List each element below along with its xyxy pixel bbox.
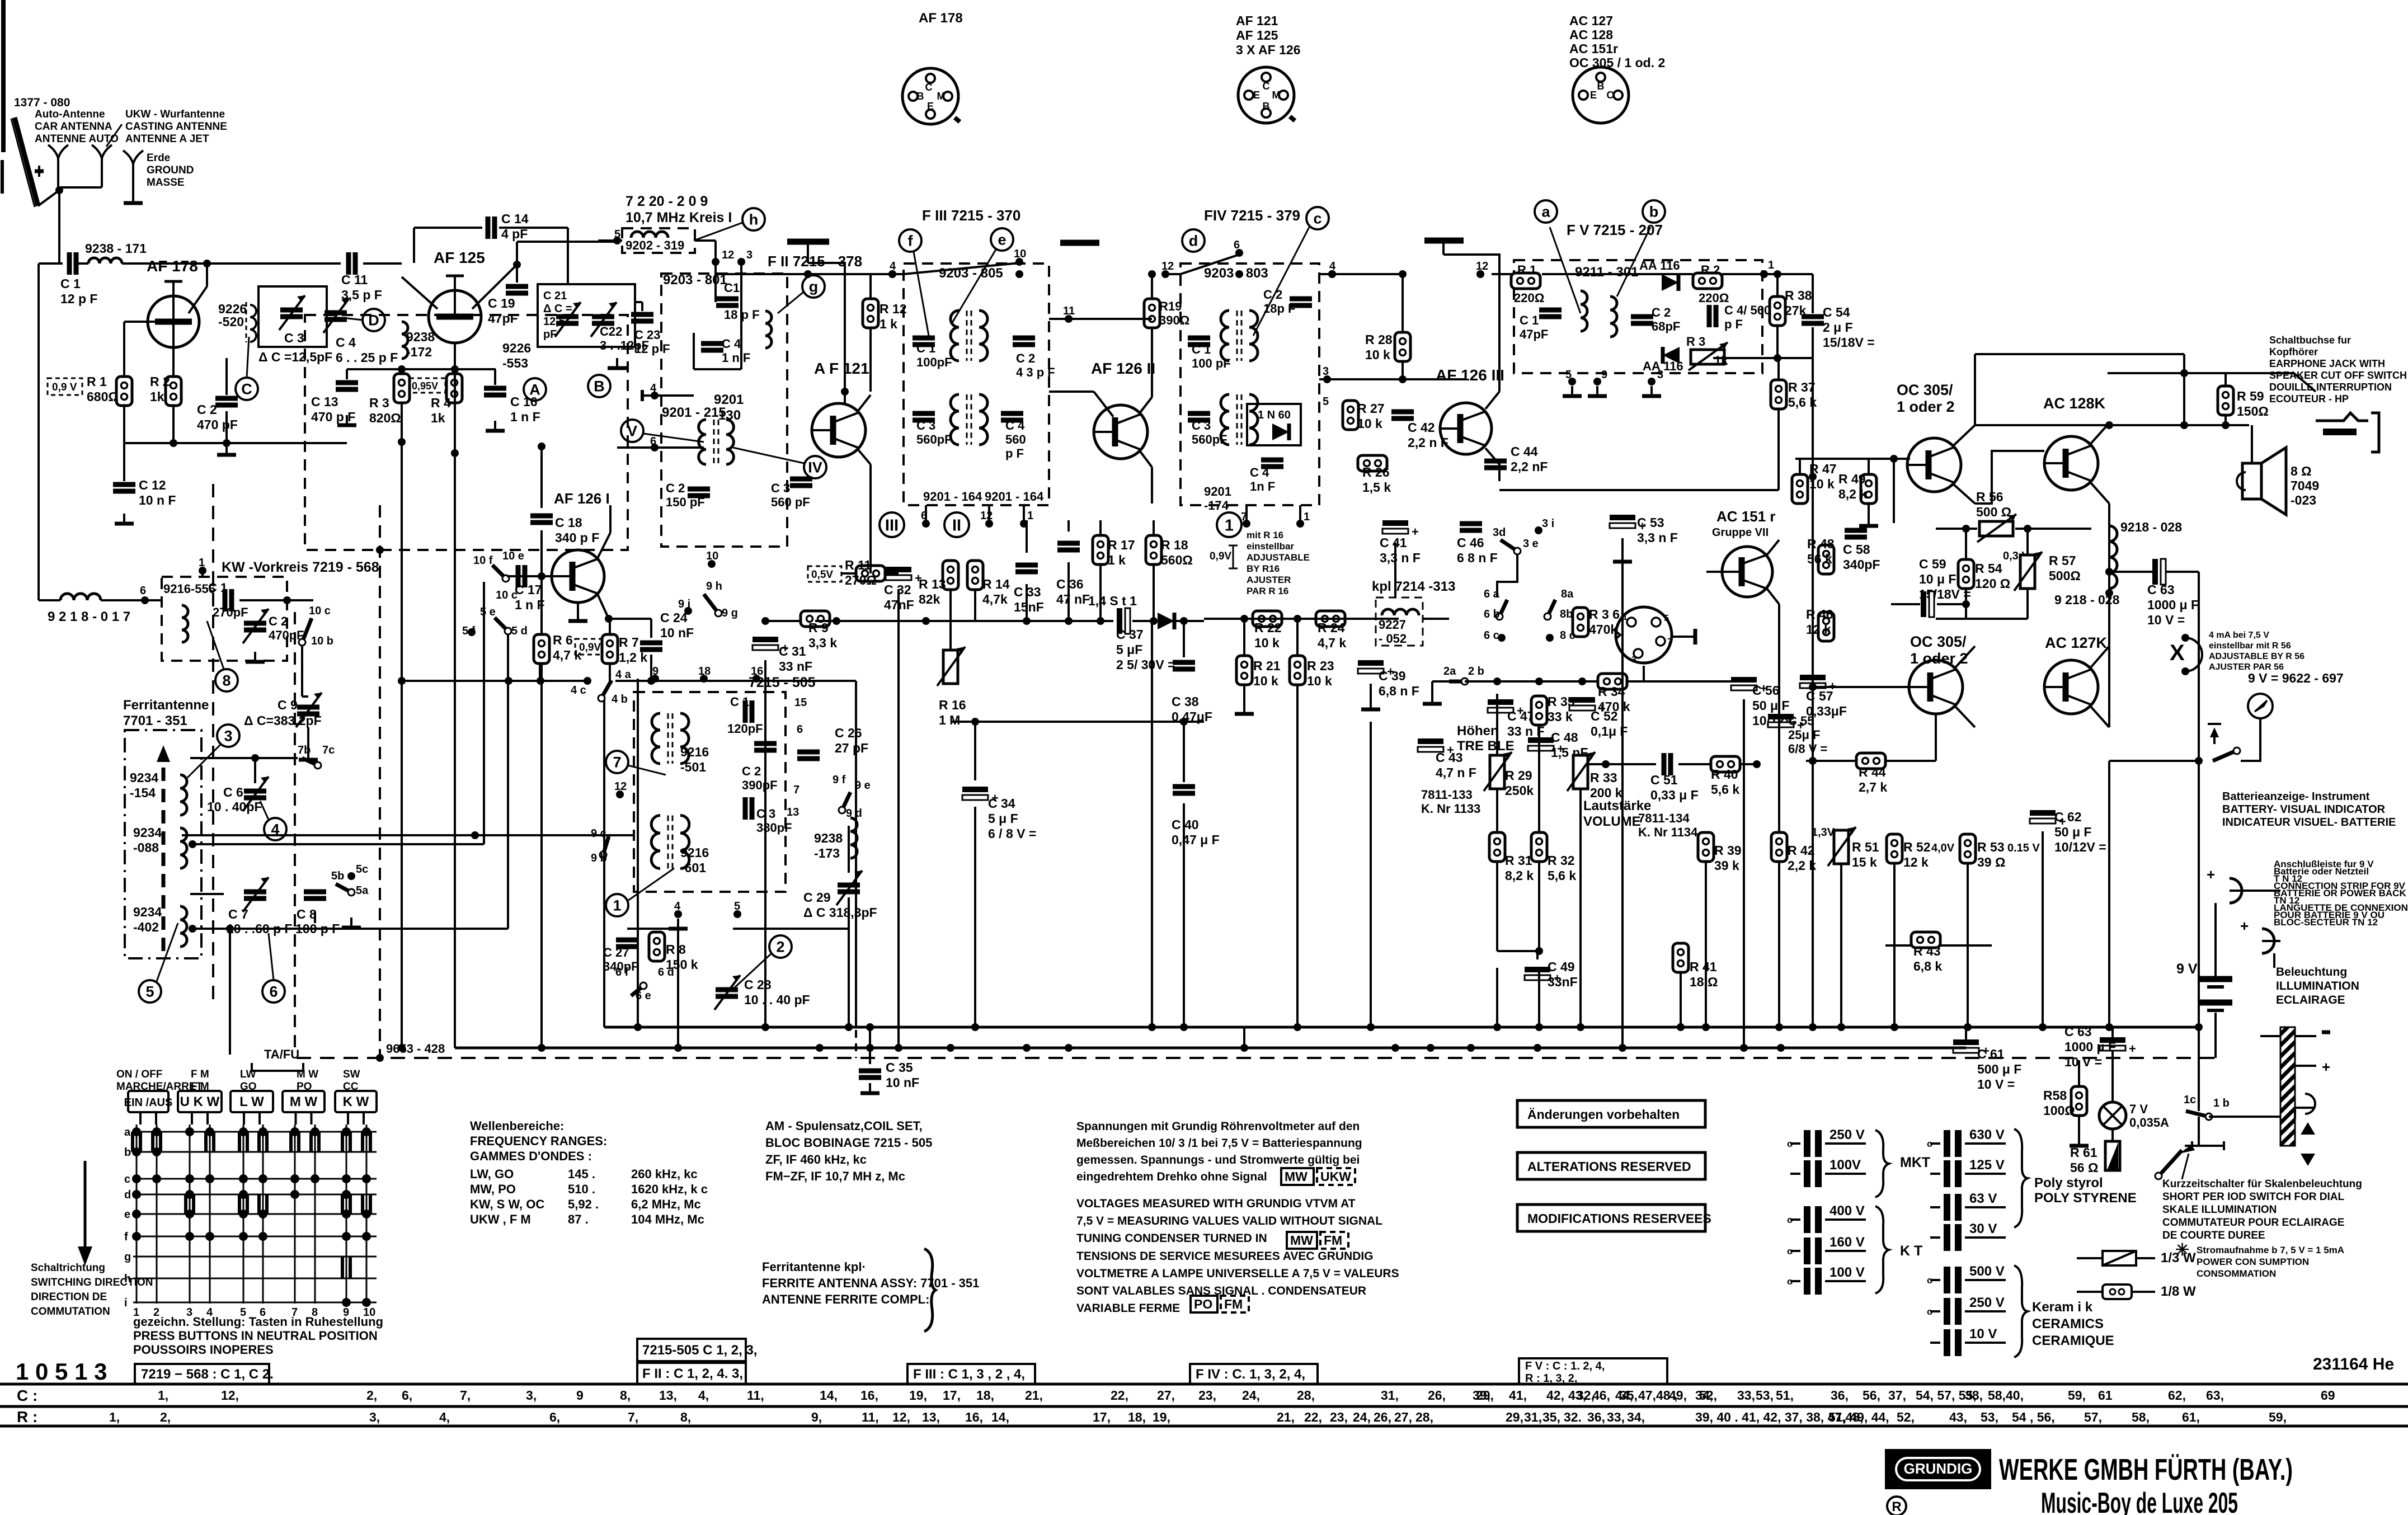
svg-text:5: 5: [1323, 396, 1329, 408]
capacitor C4/560: [1707, 305, 1712, 327]
junction c35b: [866, 1044, 874, 1052]
resistor R3 820: [394, 374, 410, 403]
ground fv 5: [1571, 386, 1573, 395]
wire vol down: [1579, 789, 1582, 951]
wire R19 up: [1151, 274, 1153, 299]
svg-text:8 Ω: 8 Ω: [2291, 464, 2312, 478]
svg-text:einstellbar mit R 56: einstellbar mit R 56: [2209, 641, 2291, 651]
wire meter v: [2259, 718, 2261, 738]
svg-text:C 3: C 3: [771, 481, 790, 495]
transistor AC151r: [1722, 547, 1772, 597]
ground C39: [1370, 699, 1372, 708]
node pin4 FII: [651, 392, 659, 399]
junction bottom bus2: [947, 1044, 954, 1052]
capacitor C46 68nF: [1460, 521, 1482, 526]
wire coil-node: [122, 262, 207, 265]
svg-text:AA 116: AA 116: [1639, 258, 1680, 272]
node 3 fiv: [1323, 375, 1331, 383]
node agc2: [1294, 615, 1301, 623]
ground C12: [123, 514, 125, 523]
svg-text:340 p F: 340 p F: [555, 530, 599, 545]
resistor R54 120: [1958, 559, 1974, 589]
svg-text:8,: 8,: [620, 1388, 631, 1403]
wire a callout: [1550, 227, 1581, 313]
svg-text:3,3 n F: 3,3 n F: [1380, 551, 1421, 565]
wire am long bus: [182, 834, 634, 836]
legend cap 10 V: [1944, 1329, 1950, 1356]
capacitor C49 33nF: [1525, 967, 1550, 972]
svg-text:9653 - 428: 9653 - 428: [386, 1042, 445, 1056]
svg-text:IV: IV: [808, 459, 822, 476]
svg-text:R 33: R 33: [1590, 770, 1617, 785]
feeder v3: [764, 679, 766, 1027]
svg-text:R 54: R 54: [1975, 561, 2002, 576]
feeder v11: [1538, 968, 1540, 1027]
node meter sw: [2195, 757, 2203, 765]
wire r56 line a: [1936, 528, 1977, 530]
svg-text:C 1: C 1: [60, 276, 81, 291]
junction top bus: [1399, 270, 1407, 278]
matrix contact: [309, 1132, 313, 1152]
battery plus contact: [2230, 878, 2242, 903]
node c24 bus: [647, 677, 655, 685]
terminal c: [1306, 207, 1329, 229]
wire collector AF125 down: [454, 343, 456, 446]
wire R18 down: [1153, 564, 1155, 621]
wire sw net: [1497, 554, 1517, 597]
svg-text:-174: -174: [1204, 498, 1229, 512]
wire C16 topl: [494, 369, 496, 385]
svg-text:C: C: [925, 82, 933, 93]
svg-text:3: 3: [746, 249, 752, 261]
svg-text:6 . . 25 p F: 6 . . 25 p F: [336, 350, 398, 365]
svg-text:3 e: 3 e: [1523, 538, 1539, 550]
coil 9226-520 trimmer: [250, 305, 256, 342]
svg-text:F II 7215 - 378: F II 7215 - 378: [768, 253, 862, 270]
svg-text:C 2: C 2: [197, 402, 217, 417]
wire R11 row: [841, 572, 856, 575]
svg-text:21,: 21,: [1277, 1410, 1295, 1424]
wire R12 up: [869, 274, 872, 299]
svg-text:TA/FU: TA/FU: [264, 1047, 299, 1061]
matrix junction: [342, 1232, 351, 1241]
svg-text:a: a: [1541, 204, 1550, 220]
node 718 bus: [398, 1044, 406, 1052]
legend cap 125 V: [1944, 1160, 1950, 1187]
svg-text:58,: 58,: [1988, 1388, 2006, 1403]
svg-text:gezeichn. Stellung: Tasten i: gezeichn. Stellung: Tasten in Ruhestellu…: [133, 1315, 383, 1329]
svg-text:L W: L W: [239, 1094, 264, 1109]
transformer FIII lower: [951, 394, 959, 445]
svg-text:R 6: R 6: [553, 633, 573, 647]
svg-text:18p F: 18p F: [1263, 302, 1295, 316]
wire meter loop: [2241, 738, 2260, 761]
wire jack v2: [2183, 373, 2185, 425]
matrix junction: [205, 1174, 214, 1183]
svg-text:C 39: C 39: [1379, 669, 1406, 683]
svg-text:R 38: R 38: [1785, 288, 1812, 303]
svg-text:470 pF: 470 pF: [197, 417, 238, 432]
node 12 fv: [1476, 270, 1484, 278]
svg-text:AF 126 I: AF 126 I: [554, 490, 610, 507]
svg-text:F IV : C. 1, 3, 2, 4,: F IV : C. 1, 3, 2, 4,: [1196, 1367, 1305, 1382]
feeder v6: [1151, 621, 1153, 1027]
wire bottom stage1: [124, 442, 227, 444]
svg-text:C 40: C 40: [1172, 817, 1199, 832]
svg-text:C 48: C 48: [1551, 730, 1578, 745]
svg-text:7701 - 351: 7701 - 351: [123, 713, 187, 728]
svg-text:BY R16: BY R16: [1247, 563, 1280, 574]
svg-text:o: o: [1787, 1276, 1793, 1287]
transistor pinout AC group: [1573, 67, 1629, 123]
pot R51 15k: [1834, 830, 1849, 864]
node 3240a: [1809, 473, 1817, 481]
svg-text:5c: 5c: [356, 863, 368, 876]
svg-text:7,: 7,: [460, 1388, 471, 1403]
dashed stub 1530: [855, 1030, 857, 1058]
feeder v14: [1705, 862, 1707, 1027]
wire R47 top: [1799, 459, 1801, 474]
resistor R39 39k: [1698, 832, 1714, 862]
svg-text:3d: 3d: [1493, 526, 1506, 539]
svg-text:10 c: 10 c: [496, 589, 518, 601]
svg-text:27 pF: 27 pF: [835, 741, 868, 755]
svg-text:F V : C : 1. 2,: F V : C : 1. 2, 4,: [1525, 1360, 1605, 1372]
svg-text:SWITCHING DIRECTION: SWITCHING DIRECTION: [31, 1277, 153, 1288]
wire pwr h2: [2111, 1027, 2114, 1037]
svg-text:10 V =: 10 V =: [1977, 1077, 2015, 1091]
svg-text:C 4: C 4: [1250, 465, 1269, 479]
svg-text:470 p F: 470 p F: [311, 410, 355, 424]
svg-text:Höhen: Höhen: [1457, 723, 1499, 738]
wire c callout: [1253, 227, 1309, 336]
terminal 7t: [606, 751, 628, 773]
svg-text:0.15 V: 0.15 V: [2007, 842, 2040, 854]
terminal g: [802, 275, 825, 298]
svg-text:8b: 8b: [1560, 608, 1573, 620]
svg-text:B: B: [1597, 81, 1605, 92]
svg-text:C 1: C 1: [916, 341, 935, 355]
matrix col 1: [136, 1125, 138, 1304]
svg-text:33,: 33,: [1607, 1410, 1625, 1424]
svg-text:10 n F: 10 n F: [139, 493, 176, 507]
svg-text:56,: 56,: [1863, 1388, 1880, 1403]
svg-text:R 17: R 17: [1108, 538, 1135, 552]
svg-text:R 22: R 22: [1254, 620, 1282, 635]
wire pwr right: [2209, 1116, 2280, 1118]
svg-text:4,7k: 4,7k: [982, 592, 1008, 606]
wire diode out: [1176, 620, 1204, 622]
am box right edge: [855, 681, 857, 1027]
matrix junction: [132, 1127, 141, 1136]
svg-text:FM: FM: [1324, 1233, 1342, 1248]
svg-text:9: 9: [576, 1388, 584, 1403]
svg-text:C: C: [1263, 81, 1270, 92]
svg-text:40,: 40,: [2006, 1388, 2024, 1403]
svg-text:57,: 57,: [2084, 1410, 2102, 1424]
feeder v8: [1296, 761, 1299, 1027]
resistor R59 150: [2218, 386, 2233, 415]
capacitor C24 10nF: [640, 641, 662, 646]
svg-text:K W: K W: [343, 1094, 369, 1109]
wire V callout: [643, 434, 704, 442]
feeder b6: [1743, 699, 1745, 1048]
capacitor C32 47nF: [886, 567, 911, 572]
svg-text:Δ C=383,2pF: Δ C=383,2pF: [244, 713, 322, 728]
svg-text:3 i: 3 i: [1542, 517, 1554, 530]
svg-text:C 35: C 35: [886, 1060, 913, 1075]
svg-text:II: II: [952, 516, 961, 534]
svg-text:COMMUTATEUR POUR ECLAIRAGE: COMMUTATEUR POUR ECLAIRAGE: [2162, 1217, 2344, 1229]
svg-text:Meßbereichen 10/ 3 /1 bei 7: Meßbereichen 10/ 3 /1 bei 7,5 V = Batter…: [1076, 1137, 1362, 1150]
svg-text:C 53: C 53: [1637, 515, 1664, 530]
legend cap 630 V: [1944, 1130, 1950, 1157]
capacitor C40 0.47uF: [1173, 784, 1195, 789]
switch 5b-5a: [336, 884, 351, 892]
junction bottom bus2: [1023, 1044, 1031, 1052]
svg-text:ANTENNE FERRITE COMPL:: ANTENNE FERRITE COMPL:: [762, 1292, 929, 1306]
svg-text:32.: 32.: [1564, 1410, 1582, 1424]
svg-text:7 2 20 - 2 0 9: 7 2 20 - 2 0 9: [625, 194, 708, 209]
wire shield drop: [807, 242, 809, 263]
wire pwr r58: [2078, 1060, 2080, 1086]
shield bar FIV: [1424, 238, 1464, 244]
wire h callout: [694, 223, 742, 241]
wire c9 down: [307, 727, 309, 750]
wire af126i emitter: [577, 603, 579, 611]
svg-text:36,: 36,: [1587, 1410, 1605, 1424]
wire audio v1: [1496, 694, 1498, 755]
svg-text:3: 3: [1657, 369, 1663, 381]
svg-text:2,7 k: 2,7 k: [1859, 780, 1887, 794]
svg-text:9 V = 9622 - 697: 9 V = 9622 - 697: [2248, 671, 2344, 685]
legend cap 100 V: [1804, 1268, 1810, 1295]
svg-text:E: E: [1590, 90, 1597, 101]
svg-text:C 18: C 18: [555, 515, 582, 530]
svg-text:+: +: [2322, 1058, 2330, 1075]
svg-text:mit R 16: mit R 16: [1247, 530, 1283, 540]
ground kw: [254, 652, 256, 661]
svg-text:VARIABLE FERME: VARIABLE FERME: [1076, 1302, 1180, 1315]
svg-text:MODIFICATIONS RESERVEES: MODIFICATIONS RESERVEES: [1527, 1211, 1711, 1226]
svg-text:R 18: R 18: [1161, 538, 1188, 552]
svg-text:R 37: R 37: [1788, 380, 1816, 394]
node 10 am: [708, 560, 716, 568]
svg-text:VOLTAGES MEASURED WITH GRUN: VOLTAGES MEASURED WITH GRUNDIG VTVM AT: [1076, 1197, 1356, 1210]
svg-text:C 4: C 4: [1005, 418, 1025, 432]
wire fiv to r28: [1319, 273, 1403, 275]
junction bottom bus2: [674, 1044, 682, 1052]
node r59: [2222, 421, 2230, 429]
node 12: [712, 258, 719, 266]
wire stage2 rail: [347, 368, 496, 370]
svg-text:R 7: R 7: [619, 635, 639, 650]
svg-text:F M: F M: [191, 1069, 209, 1080]
wire box right: [695, 239, 716, 242]
svg-text:f: f: [124, 1231, 128, 1243]
svg-text:CONSOMMATION: CONSOMMATION: [2197, 1268, 2276, 1279]
svg-text:R 16: R 16: [939, 698, 966, 712]
resistor R9 3.3k: [801, 611, 830, 627]
svg-text:INDICATEUR VISUEL- BATTERIE: INDICATEUR VISUEL- BATTERIE: [2222, 816, 2396, 829]
wire 3 down: [740, 262, 742, 302]
wire jack v: [2183, 354, 2185, 373]
wire b callout: [1617, 227, 1650, 297]
battery cell: [2199, 976, 2232, 982]
wire emitter AF121: [858, 395, 871, 411]
svg-text:1 n F: 1 n F: [515, 597, 545, 612]
svg-text:AF 178: AF 178: [147, 257, 198, 275]
matrix junction: [362, 1174, 371, 1183]
svg-text:PAR R 16: PAR R 16: [1247, 586, 1288, 596]
wire din lead: [1672, 636, 1695, 638]
wire oc305u e: [1954, 425, 1975, 445]
svg-text:X: X: [2170, 641, 2185, 665]
wire out v1: [2108, 504, 2110, 727]
svg-text:BLOC BOBINAGE 7215 - 505: BLOC BOBINAGE 7215 - 505: [765, 1136, 932, 1150]
matrix contact: [361, 1132, 364, 1152]
wire emitter up: [1151, 328, 1153, 397]
node 3: [737, 258, 745, 266]
svg-text:17,: 17,: [943, 1388, 961, 1403]
capacitor C2 68pF FV: [1631, 314, 1653, 319]
svg-text:6,: 6,: [549, 1410, 560, 1424]
current note arc: [2185, 638, 2202, 671]
svg-text:23,: 23,: [1330, 1410, 1348, 1424]
svg-text:KW -Vorkreis 7219 - 568: KW -Vorkreis 7219 - 568: [222, 559, 379, 575]
svg-text:10 . 40pF: 10 . 40pF: [207, 799, 262, 814]
matrix junction: [185, 1190, 194, 1199]
dashed box frontend: [305, 315, 628, 550]
wire emitter up: [206, 265, 208, 286]
svg-text:Beleuchtung: Beleuchtung: [2276, 966, 2347, 978]
wire down mid: [454, 442, 456, 504]
capacitor C48 1.5nF: [1528, 737, 1554, 743]
telescopic antenna rod: [15, 117, 38, 206]
node r57 top: [2024, 525, 2031, 533]
svg-text:14,: 14,: [820, 1388, 838, 1403]
wire top bus fm1: [716, 273, 892, 275]
svg-text:10 k: 10 k: [1365, 347, 1390, 362]
svg-text:c: c: [124, 1173, 130, 1185]
ruler line top: [0, 1383, 2408, 1386]
wire audio v5: [1538, 862, 1540, 951]
junction bottom bus: [971, 1023, 979, 1031]
transistor AF126 III: [1440, 403, 1492, 454]
transistor AF178: [148, 296, 199, 347]
svg-text:8,2 k: 8,2 k: [1505, 868, 1534, 883]
wire r43 line: [1885, 944, 1911, 947]
svg-text:Music-Boy de Luxe 205: Music-Boy de Luxe 205: [2041, 1487, 2238, 1515]
svg-text:6: 6: [140, 585, 146, 597]
svg-text:7 V: 7 V: [2129, 1102, 2148, 1116]
feeder v1: [454, 504, 456, 1048]
legend cap 30 V: [1944, 1224, 1950, 1251]
ta/fu bracket: [252, 1063, 303, 1071]
node pin6: [651, 444, 659, 451]
svg-text:9211 - 301: 9211 - 301: [1575, 265, 1638, 280]
svg-text:AF 125: AF 125: [434, 249, 485, 266]
svg-text:o: o: [1927, 1306, 1932, 1317]
wire r23 v: [1296, 621, 1299, 656]
svg-text:TRE BLE: TRE BLE: [1457, 738, 1515, 754]
wire 5d column: [507, 635, 509, 929]
svg-text:R 28: R 28: [1365, 332, 1393, 347]
svg-text:9201: 9201: [714, 392, 744, 407]
svg-text:R 2: R 2: [1701, 263, 1720, 277]
svg-text:150Ω: 150Ω: [2237, 404, 2269, 418]
svg-text:9 V: 9 V: [2176, 961, 2198, 977]
ground C16: [494, 421, 496, 430]
wire AF121 col down: [869, 464, 872, 504]
wire sw down pw: [2198, 1027, 2200, 1111]
svg-text:Δ C 318,3pF: Δ C 318,3pF: [803, 905, 877, 920]
matrix junction: [290, 1190, 299, 1199]
switch 1c-1b: [2186, 1111, 2209, 1117]
feeder v7: [1183, 803, 1185, 1027]
wire FII int: [693, 333, 695, 369]
svg-text:12 k: 12 k: [1806, 622, 1831, 637]
svg-text:12 p F: 12 p F: [60, 291, 97, 306]
junction bottom bus2: [1740, 1044, 1748, 1052]
wire agc bus: [1204, 618, 1399, 620]
node em rail: [2105, 421, 2113, 429]
feeder v4: [848, 897, 850, 1027]
svg-text:C 2: C 2: [666, 481, 685, 495]
capacitor C41 3.3nF: [1382, 520, 1408, 526]
svg-text:AC 127K: AC 127K: [2045, 634, 2108, 651]
wire audio v3: [1496, 862, 1498, 951]
svg-text:30 V: 30 V: [1969, 1221, 1997, 1236]
trimmer C29: [838, 883, 860, 888]
svg-text:R 51: R 51: [1852, 840, 1879, 854]
wire c35 v: [869, 1027, 871, 1064]
svg-text:6 c: 6 c: [1484, 629, 1499, 642]
dashed box 9227-052: [1376, 597, 1423, 646]
svg-text:COMMUTATION: COMMUTATION: [31, 1306, 110, 1318]
svg-text:49,: 49,: [1669, 1388, 1687, 1403]
capacitor C61 500uF: [1953, 1039, 1979, 1045]
svg-text:POLY STYRENE: POLY STYRENE: [2034, 1191, 2137, 1206]
svg-text:UKW: UKW: [1320, 1169, 1351, 1184]
svg-text:8a: 8a: [1561, 588, 1574, 600]
transistor AF125: [429, 290, 481, 343]
matrix contact: [131, 1132, 134, 1152]
matrix contact: [184, 1194, 187, 1214]
svg-text:9201: 9201: [1204, 484, 1231, 498]
wire R1 bottom: [123, 406, 125, 443]
wire r7 bot: [609, 664, 611, 681]
capacitor C31 33nF: [752, 637, 778, 642]
resistor R24 4.7k: [1316, 611, 1345, 627]
svg-text:KW, S W, OC: KW, S W, OC: [470, 1197, 544, 1211]
wire r23 down: [1296, 685, 1299, 761]
wire base AF178: [124, 321, 155, 323]
svg-text:1 n F: 1 n F: [510, 410, 540, 424]
node c18 top: [538, 443, 545, 450]
resistor R7 1.2k: [602, 634, 618, 664]
wire c23 v: [641, 302, 643, 311]
svg-text:d: d: [124, 1189, 131, 1201]
svg-text:C: C: [1607, 90, 1614, 101]
matrix junction: [132, 1147, 141, 1156]
alterations box 1: [1517, 1100, 1705, 1127]
svg-text:25μ F: 25μ F: [1788, 728, 1820, 742]
capacitor C3 560pF FIV: [1188, 411, 1210, 416]
svg-text:3,3 k: 3,3 k: [808, 636, 837, 650]
wire fv to node1: [1722, 273, 1764, 275]
ground C9: [307, 750, 309, 759]
